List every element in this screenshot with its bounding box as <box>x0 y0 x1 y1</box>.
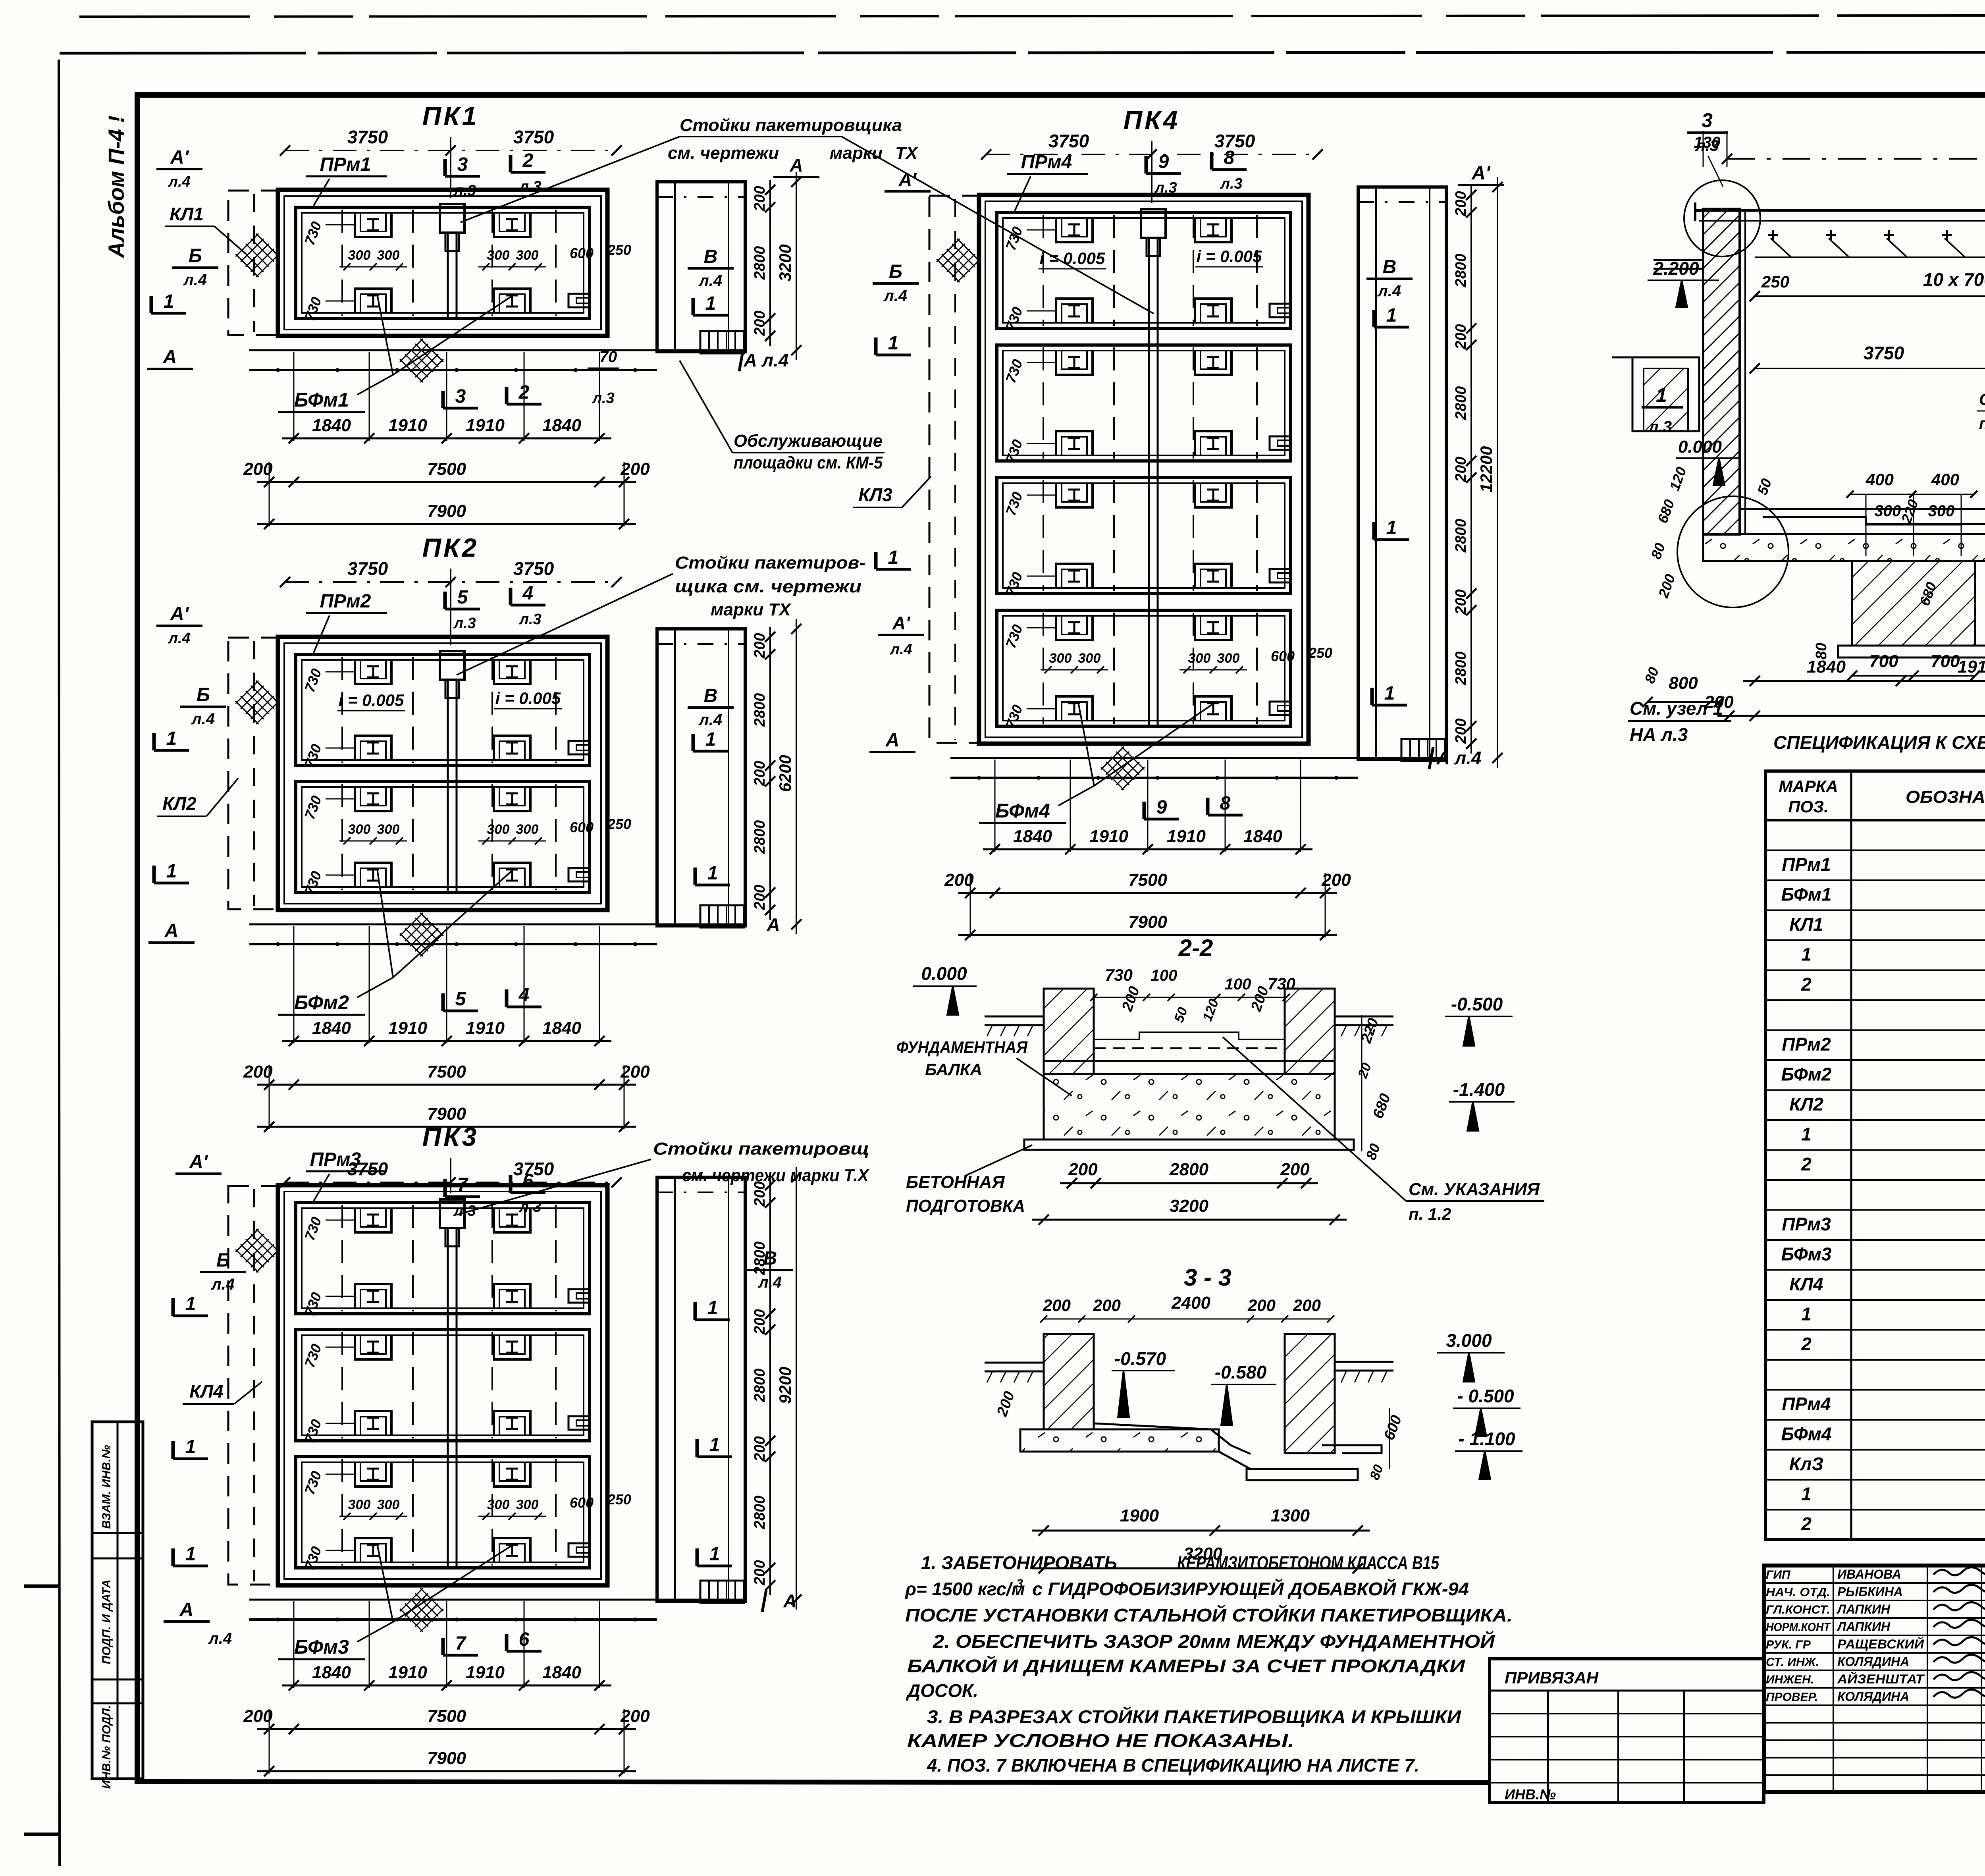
section 1-1 wall pipe stubs <box>1654 259 1703 261</box>
svg-text:600: 600 <box>570 1494 594 1511</box>
svg-text:л.3: л.3 <box>1154 179 1177 196</box>
plan ПК1 bay 1 chamber <box>296 207 590 318</box>
svg-text:1: 1 <box>709 1434 720 1456</box>
svg-text:1: 1 <box>1656 384 1667 406</box>
plan ПК4 right dimension chain <box>1470 185 1472 754</box>
plan ПК4 bay 2 chamber <box>997 345 1291 461</box>
svg-text:3200: 3200 <box>776 244 794 281</box>
svg-text:0.000: 0.000 <box>921 963 967 984</box>
svg-text:л.4: л.4 <box>211 1276 235 1293</box>
svg-text:10 х 700 : 7000: 10 х 700 : 7000 <box>1923 269 1985 290</box>
svg-text:200: 200 <box>1453 718 1469 744</box>
svg-text:300: 300 <box>377 1497 400 1512</box>
svg-text:1: 1 <box>707 863 718 884</box>
section 1-1 floor <box>1740 508 1985 510</box>
plan ПК3 right dimension chain <box>769 1175 771 1595</box>
plan ПК3 bay 3 I-beam sockets <box>355 1462 391 1487</box>
svg-text:БФм4: БФм4 <box>995 800 1050 822</box>
svg-text:А: А <box>766 914 780 935</box>
plan ПК3 bay 3 axis lines <box>341 1459 343 1566</box>
svg-text:А: А <box>783 1591 796 1611</box>
svg-text:КЛ2: КЛ2 <box>162 793 197 814</box>
svg-text:А': А' <box>189 1151 208 1172</box>
plan ПК3 bay 2 I-beam sockets <box>355 1335 391 1359</box>
svg-text:300: 300 <box>516 822 539 837</box>
svg-text:8: 8 <box>1224 147 1235 168</box>
svg-text:1: 1 <box>185 1436 196 1458</box>
svg-text:200: 200 <box>1093 1296 1121 1315</box>
plan ПК1 bay 1 I-beam sockets <box>355 212 391 237</box>
plan ПК2 outer wall <box>278 637 607 910</box>
svg-text:1840: 1840 <box>312 1663 351 1682</box>
plan ПК3 bay 2 chamber <box>296 1330 590 1441</box>
plan ПК4 bay 3 axis lines <box>1043 480 1044 591</box>
svg-text:Б: Б <box>216 1250 230 1271</box>
plan ПК4 bay 4 I-beam sockets <box>1056 615 1093 640</box>
svg-text:7: 7 <box>457 1174 469 1195</box>
svg-text:800: 800 <box>1669 673 1698 693</box>
plan ПК3 bay 2 channel bracket <box>569 1416 589 1430</box>
svg-text:ПРм1: ПРм1 <box>320 154 371 175</box>
plan ПК3 bay 3 channel bracket <box>569 1543 589 1557</box>
svg-text:Стойки пакетиров-: Стойки пакетиров- <box>675 553 865 573</box>
svg-text:2: 2 <box>518 382 530 403</box>
svg-text:РАЩЕВСКИЙ: РАЩЕВСКИЙ <box>1837 1637 1924 1651</box>
plan ПК1 bottom dimension chains <box>282 438 611 440</box>
svg-text:л.4: л.4 <box>889 641 912 658</box>
svg-text:1: 1 <box>888 333 899 354</box>
svg-text:БФм3: БФм3 <box>294 1636 349 1658</box>
section 3-3 right wall <box>1285 1334 1335 1453</box>
svg-text:-0.570: -0.570 <box>1114 1348 1166 1369</box>
svg-text:600: 600 <box>570 819 594 835</box>
svg-text:ПРм4: ПРм4 <box>1782 1394 1831 1414</box>
plan ПК2 bottom apron <box>249 924 745 925</box>
svg-text:300: 300 <box>1188 651 1211 666</box>
section 1-1 foundation slab <box>1703 534 1985 561</box>
svg-text:200: 200 <box>752 1436 768 1461</box>
svg-text:2: 2 <box>1801 1334 1812 1354</box>
svg-text:с ГИДРОФОБИЗИРУЮЩЕЙ ДОБАВКО: с ГИДРОФОБИЗИРУЮЩЕЙ ДОБАВКОЙ ГКЖ-94 <box>1032 1579 1469 1599</box>
svg-text:9: 9 <box>1158 151 1169 172</box>
svg-text:ПОДП. И ДАТА: ПОДП. И ДАТА <box>100 1579 113 1664</box>
sheet left edge line <box>59 60 60 1866</box>
svg-text:щика см. чертежи: щика см. чертежи <box>675 577 861 596</box>
svg-text:1840: 1840 <box>542 416 581 435</box>
section 2-2 foundation mass <box>1044 1074 1335 1139</box>
svg-text:3750: 3750 <box>1048 131 1089 151</box>
svg-text:А л.4: А л.4 <box>744 350 789 370</box>
svg-text:1840: 1840 <box>1243 827 1282 846</box>
svg-text:2800: 2800 <box>752 246 768 280</box>
svg-text:Стойки пакетировщ: Стойки пакетировщ <box>653 1139 869 1159</box>
plan ПК3 bay 1 chamber <box>296 1203 590 1314</box>
svg-text:2: 2 <box>1801 974 1812 995</box>
svg-text:250: 250 <box>1761 272 1789 291</box>
svg-text:В: В <box>1383 256 1397 278</box>
svg-text:600: 600 <box>570 245 594 261</box>
plan ПК3 bay 2 axis lines <box>341 1332 343 1438</box>
svg-text:i = 0.005: i = 0.005 <box>339 691 404 710</box>
svg-text:А': А' <box>898 169 917 190</box>
svg-text:600: 600 <box>1271 648 1295 664</box>
plan ПК3 packer stand <box>440 1199 464 1228</box>
svg-text:1840: 1840 <box>542 1018 581 1038</box>
svg-text:3. В РАЗРЕЗАХ СТОЙКИ ПАК: 3. В РАЗРЕЗАХ СТОЙКИ ПАКЕТИРОВЩИКА И КРЫ… <box>927 1706 1461 1727</box>
section 2-2 right wall <box>1285 989 1335 1074</box>
svg-text:КОЛЯДИНА: КОЛЯДИНА <box>1837 1654 1909 1669</box>
plan ПК2 packer stand <box>440 651 464 680</box>
svg-text:7900: 7900 <box>427 1104 466 1124</box>
svg-text:250: 250 <box>607 816 631 832</box>
plan ПК4 outer wall <box>979 195 1309 744</box>
svg-text:2800: 2800 <box>1453 386 1469 420</box>
svg-text:ЛАПКИН: ЛАПКИН <box>1837 1620 1891 1634</box>
svg-text:7500: 7500 <box>427 1062 466 1082</box>
section 1-1 lid <box>1695 209 1985 212</box>
plan ПК4 bay 4 axis lines <box>1043 613 1044 724</box>
svg-text:л.3: л.3 <box>518 1199 541 1215</box>
svg-text:л.4: л.4 <box>168 174 190 190</box>
svg-text:В: В <box>704 246 718 267</box>
svg-text:л.4: л.4 <box>208 1630 232 1647</box>
svg-text:300: 300 <box>516 248 539 263</box>
plan ПК2 bay 2 chamber <box>296 781 590 893</box>
svg-text:Обслуживающие: Обслуживающие <box>734 431 883 451</box>
plan ПК4 bay 3 chamber <box>997 478 1291 594</box>
svg-text:л.3: л.3 <box>453 182 476 199</box>
svg-text:А: А <box>885 730 900 751</box>
plan ПК3 bottom dimension chains <box>282 1685 611 1687</box>
svg-text:200: 200 <box>1068 1160 1098 1179</box>
svg-text:200: 200 <box>1453 191 1469 216</box>
svg-text:1: 1 <box>164 291 174 312</box>
title block frame <box>1764 1566 1985 1792</box>
svg-text:200: 200 <box>944 870 974 890</box>
plan ПК3 bay 1 I-beam sockets <box>355 1208 391 1232</box>
svg-text:1: 1 <box>185 1294 196 1315</box>
section 1-1 left channel detail <box>1632 357 1699 431</box>
svg-text:п. 1.2: п. 1.2 <box>1979 415 1985 432</box>
svg-text:-1.400: -1.400 <box>1453 1079 1505 1100</box>
svg-text:-0.500: -0.500 <box>1451 994 1503 1014</box>
plan ПК4 platform stair <box>1401 739 1445 761</box>
svg-text:100: 100 <box>1225 976 1251 993</box>
svg-text:200: 200 <box>1293 1296 1321 1315</box>
plan ПК4 bay 1 axis lines <box>1043 215 1044 326</box>
svg-text:КЛ2: КЛ2 <box>1789 1094 1823 1114</box>
plan ПК4 bay 1 chamber <box>997 212 1291 328</box>
svg-text:Б: Б <box>189 245 202 266</box>
svg-text:2800: 2800 <box>752 693 768 727</box>
svg-text:300: 300 <box>487 1497 510 1512</box>
svg-text:ПК4: ПК4 <box>1124 105 1180 135</box>
svg-text:л.3: л.3 <box>1695 137 1719 154</box>
plan ПК1 packer stand <box>440 204 464 233</box>
plan ПК4 bay 4 channel bracket <box>1270 702 1290 715</box>
svg-text:1: 1 <box>705 293 716 314</box>
svg-text:3750: 3750 <box>1864 343 1904 363</box>
svg-text:ПРОВЕР.: ПРОВЕР. <box>1766 1691 1818 1704</box>
svg-text:КЛ3: КЛ3 <box>858 484 892 505</box>
svg-text:1910: 1910 <box>1167 827 1206 846</box>
plan ПК2 channel strip (dashed) <box>228 638 278 909</box>
svg-text:ПОДГОТОВКА: ПОДГОТОВКА <box>906 1196 1025 1216</box>
svg-text:БФм1: БФм1 <box>294 389 349 411</box>
section 1-1 left wall (hatched) <box>1703 209 1740 534</box>
svg-text:300: 300 <box>487 248 510 263</box>
plan ПК1 bay 1 channel bracket <box>569 294 589 307</box>
svg-text:л.4: л.4 <box>698 711 722 729</box>
svg-text:300: 300 <box>1217 651 1240 666</box>
svg-text:ОБОЗНАЧЕНИЕ: ОБОЗНАЧЕНИЕ <box>1906 787 1985 807</box>
svg-text:площадки см. КМ-5: площадки см. КМ-5 <box>734 453 883 472</box>
svg-text:3: 3 <box>1016 1577 1023 1590</box>
svg-text:КЕРАМЗИТОБЕТОНОМ КЛАССА В15: КЕРАМЗИТОБЕТОНОМ КЛАССА В15 <box>1177 1552 1440 1573</box>
svg-text:См. узел 1: См. узел 1 <box>1630 698 1723 719</box>
svg-text:л.3: л.3 <box>518 611 541 628</box>
svg-text:3750: 3750 <box>347 558 388 579</box>
frame bottom left segment <box>137 1782 1490 1783</box>
svg-text:9: 9 <box>1156 797 1167 818</box>
svg-text:л.3: л.3 <box>592 390 614 407</box>
svg-text:БЕТОННАЯ: БЕТОННАЯ <box>906 1172 1005 1192</box>
svg-text:1: 1 <box>705 729 716 750</box>
plan ПК4 bay 3 channel bracket <box>1270 569 1290 582</box>
svg-text:см. чертежи марки Т.Х: см. чертежи марки Т.Х <box>682 1166 869 1185</box>
svg-text:2800: 2800 <box>752 1369 768 1403</box>
svg-text:1: 1 <box>1801 1303 1812 1324</box>
svg-text:2.200: 2.200 <box>1653 258 1699 279</box>
svg-text:ПК2: ПК2 <box>422 533 479 562</box>
svg-text:700: 700 <box>1869 652 1898 671</box>
svg-text:1: 1 <box>709 1544 720 1565</box>
svg-text:200: 200 <box>1043 1296 1071 1315</box>
svg-text:2800: 2800 <box>1453 519 1469 553</box>
svg-text:2: 2 <box>1801 1154 1812 1174</box>
svg-text:200: 200 <box>620 1062 650 1082</box>
svg-text:i = 0.005: i = 0.005 <box>1197 247 1262 266</box>
svg-text:А': А' <box>892 613 911 633</box>
plan ПК4 bay 2 axis lines <box>1043 347 1044 459</box>
svg-text:300: 300 <box>348 1497 371 1512</box>
svg-text:КОЛЯДИНА: КОЛЯДИНА <box>1837 1689 1909 1704</box>
svg-text:А л.4: А л.4 <box>1436 748 1482 768</box>
plan ПК3 bay 1 axis lines <box>341 1205 343 1311</box>
svg-text:л.3: л.3 <box>1220 175 1242 192</box>
svg-text:7500: 7500 <box>1128 870 1167 890</box>
plan ПК4 300+300 small dims <box>1041 669 1108 671</box>
svg-text:1900: 1900 <box>1120 1506 1159 1525</box>
plan ПК1 crosshatch patches <box>235 233 279 277</box>
svg-text:1: 1 <box>888 547 899 568</box>
svg-text:л.3: л.3 <box>1648 418 1672 436</box>
svg-text:400: 400 <box>1931 470 1959 489</box>
plan ПК4 top dimension 3750+3750 <box>986 154 1318 155</box>
svg-text:1840: 1840 <box>312 1018 351 1038</box>
svg-text:i = 0.005: i = 0.005 <box>495 689 561 708</box>
svg-text:1840: 1840 <box>1013 827 1052 846</box>
svg-text:2800: 2800 <box>752 1496 768 1530</box>
svg-text:200: 200 <box>752 310 768 336</box>
plan ПК1 top dimension 3750+3750 <box>285 150 617 151</box>
plan ПК4 service platform <box>1358 187 1446 760</box>
svg-text:ПРм3: ПРм3 <box>310 1149 361 1170</box>
plan ПК3 top dimension 3750+3750 <box>285 1182 617 1183</box>
plan ПК2 central divider <box>447 654 449 893</box>
svg-text:300: 300 <box>1928 502 1955 520</box>
plan ПК2 platform stair <box>700 905 744 927</box>
svg-text:8: 8 <box>1220 793 1231 814</box>
svg-text:200: 200 <box>1453 457 1469 482</box>
svg-text:7: 7 <box>455 1633 467 1654</box>
plan ПК2 crosshatch patches <box>235 681 279 724</box>
plan ПК4 crosshatch patches <box>937 239 980 282</box>
svg-text:9200: 9200 <box>776 1367 794 1404</box>
svg-text:3.000: 3.000 <box>1446 1330 1492 1351</box>
svg-text:300: 300 <box>1078 651 1101 666</box>
plan ПК3 platform stair <box>700 1581 744 1603</box>
svg-text:ГЛ.КОНСТ.: ГЛ.КОНСТ. <box>1766 1603 1830 1616</box>
svg-text:100: 100 <box>1151 967 1178 984</box>
plan ПК4 bay 1 channel bracket <box>1270 304 1290 317</box>
plan ПК2 service platform <box>657 629 745 926</box>
svg-text:7500: 7500 <box>427 459 466 479</box>
svg-text:А: А <box>179 1599 194 1620</box>
section 1-1 bottom dims <box>1743 680 1985 682</box>
svg-text:300: 300 <box>377 248 400 263</box>
svg-text:7900: 7900 <box>1128 912 1167 932</box>
svg-text:ПРм1: ПРм1 <box>1782 854 1831 875</box>
plan ПК4 bay 3 I-beam sockets <box>1056 483 1093 507</box>
svg-text:2800: 2800 <box>1453 652 1469 686</box>
svg-text:КЛ1: КЛ1 <box>1789 914 1823 935</box>
svg-text:марки ТХ: марки ТХ <box>711 600 792 619</box>
svg-text:300: 300 <box>516 1497 539 1512</box>
svg-text:БФм2: БФм2 <box>294 991 349 1014</box>
svg-text:НАЧ. ОТД.: НАЧ. ОТД. <box>1766 1586 1830 1599</box>
svg-text:1910: 1910 <box>466 416 505 435</box>
svg-text:А': А' <box>170 147 189 168</box>
plan ПК4 bottom dimension chains <box>983 848 1312 850</box>
svg-text:ПРм2: ПРм2 <box>1782 1034 1831 1055</box>
svg-text:1300: 1300 <box>1271 1506 1310 1525</box>
svg-text:3750: 3750 <box>1214 131 1255 151</box>
svg-text:л.4: л.4 <box>183 271 207 289</box>
svg-text:1: 1 <box>185 1544 196 1565</box>
svg-text:0.000: 0.000 <box>1678 437 1722 457</box>
svg-text:3750: 3750 <box>513 127 554 147</box>
section 3-3 floors <box>1094 1423 1251 1454</box>
svg-text:2800: 2800 <box>752 820 768 854</box>
plan ПК1 bay 1 axis lines <box>341 210 343 316</box>
svg-text:200: 200 <box>1321 870 1351 890</box>
svg-text:КЛ4: КЛ4 <box>189 1381 223 1402</box>
svg-text:РУК. ГР: РУК. ГР <box>1766 1638 1811 1651</box>
svg-text:6200: 6200 <box>776 755 794 792</box>
svg-text:А: А <box>789 155 803 175</box>
svg-text:-0.580: -0.580 <box>1215 1362 1267 1382</box>
plan ПК2 bay 1 channel bracket <box>569 741 589 754</box>
svg-text:200: 200 <box>1453 589 1469 615</box>
svg-text:марки: марки <box>830 143 883 163</box>
svg-text:200: 200 <box>752 761 768 786</box>
svg-text:3750: 3750 <box>513 558 554 579</box>
svg-text:А': А' <box>1471 163 1491 184</box>
svg-text:200: 200 <box>752 885 768 910</box>
svg-text:i = 0.005: i = 0.005 <box>1040 249 1105 268</box>
svg-text:А: А <box>163 347 177 368</box>
svg-text:2800: 2800 <box>1453 254 1469 288</box>
svg-text:ПРИВЯЗАН: ПРИВЯЗАН <box>1505 1668 1599 1687</box>
svg-text:1910: 1910 <box>388 1663 427 1682</box>
plan ПК3 service platform <box>657 1177 745 1601</box>
plan ПК1 300+300 small dims <box>339 266 407 268</box>
svg-text:200: 200 <box>243 1706 273 1726</box>
svg-text:700: 700 <box>1931 652 1960 671</box>
section 3-3 ground stubs <box>985 1362 1044 1364</box>
svg-text:ρ= 1500 кгс/м: ρ= 1500 кгс/м <box>904 1579 1025 1599</box>
svg-text:2-2: 2-2 <box>1178 935 1213 961</box>
svg-text:Стойки пакетировщика: Стойки пакетировщика <box>680 116 902 135</box>
svg-text:СТ. ИНЖ.: СТ. ИНЖ. <box>1766 1656 1819 1669</box>
svg-text:250: 250 <box>1308 645 1332 661</box>
svg-text:ПРм2: ПРм2 <box>320 591 371 612</box>
plan ПК2 right dimension chain <box>769 627 771 920</box>
svg-text:2400: 2400 <box>1171 1293 1210 1313</box>
svg-text:БАЛКА: БАЛКА <box>925 1060 982 1079</box>
section 2-2 left wall <box>1044 989 1094 1074</box>
svg-text:РЫБКИНА: РЫБКИНА <box>1837 1585 1903 1599</box>
plan ПК3 channel strip (dashed) <box>228 1186 278 1585</box>
svg-text:ПК1: ПК1 <box>422 101 479 131</box>
svg-text:2: 2 <box>1801 1514 1812 1534</box>
plan ПК2 bay 1 axis lines <box>341 657 343 763</box>
svg-text:200: 200 <box>620 1706 650 1726</box>
svg-text:ВЗАМ. ИНВ.№: ВЗАМ. ИНВ.№ <box>100 1445 113 1529</box>
left stamp column <box>92 1422 143 1779</box>
section 1-1 node circles <box>1684 180 1760 256</box>
plan ПК4 bay 2 channel bracket <box>1270 436 1290 450</box>
svg-text:12200: 12200 <box>1477 446 1495 493</box>
plan ПК1 central divider <box>447 207 449 318</box>
plan ПК2 bottom dimension chains <box>282 1040 611 1042</box>
svg-text:1910: 1910 <box>466 1018 505 1038</box>
svg-text:3: 3 <box>457 154 468 175</box>
section 3-3 left wall <box>1044 1334 1094 1429</box>
svg-text:ФУНДАМЕНТНАЯ: ФУНДАМЕНТНАЯ <box>896 1038 1028 1057</box>
plan ПК2 top dimension 3750+3750 <box>285 581 617 583</box>
plan ПК3 central divider <box>447 1203 449 1568</box>
svg-text:ПОСЛЕ УСТАНОВКИ СТАЛ: ПОСЛЕ УСТАНОВКИ СТАЛЬНОЙ СТОЙКИ ПАКЕТИРО… <box>905 1605 1513 1625</box>
svg-text:л.4: л.4 <box>1377 282 1401 300</box>
plan ПК1 right dimension chain <box>769 180 771 346</box>
svg-text:3200: 3200 <box>1170 1196 1208 1216</box>
svg-text:4: 4 <box>518 985 530 1006</box>
plan ПК2 bay 2 I-beam sockets <box>355 787 391 811</box>
svg-text:л.4: л.4 <box>758 1274 782 1291</box>
plan ПК2 bay 1 chamber <box>296 654 590 765</box>
svg-text:ПРм3: ПРм3 <box>1782 1214 1831 1234</box>
svg-text:1: 1 <box>166 728 177 749</box>
section 2-2 inner floor <box>1094 1047 1285 1049</box>
plan ПК4 bay 4 chamber <box>997 610 1291 726</box>
plan ПК3 outer wall <box>278 1185 607 1585</box>
svg-text:250: 250 <box>607 1491 631 1508</box>
svg-text:ИВАНОВА: ИВАНОВА <box>1837 1567 1901 1581</box>
svg-text:Б: Б <box>889 261 902 282</box>
svg-text:400: 400 <box>1866 470 1894 489</box>
